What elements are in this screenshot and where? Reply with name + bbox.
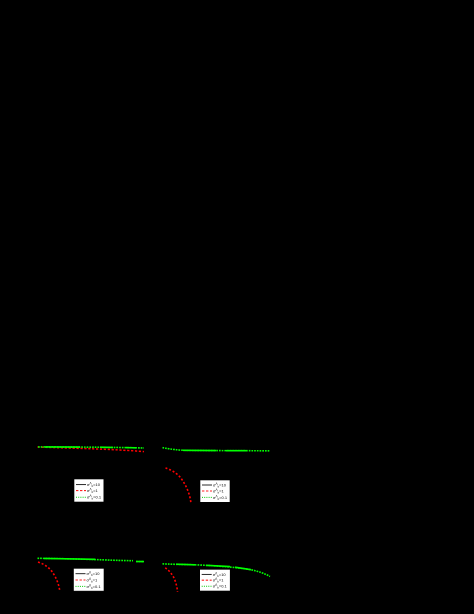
chart2 green solid segment a [183,449,216,451]
chart3 green solid segment b [136,561,144,563]
legend1 solid black sample [76,484,86,486]
legend2 green dotted sample [202,496,212,498]
chart 3 (bottom-left subplot) [38,558,145,591]
legend3 solid black sample [76,573,86,575]
chart1 red dashed curve [38,447,145,452]
chart3 legend box [74,568,105,591]
chart4 red dashed curve [165,568,177,592]
chart2 green solid segment b [226,450,246,452]
chart4 green solid segment c [235,567,251,570]
legend4 red dashed sample [202,579,212,581]
chart1 green solid segment b [100,446,113,448]
legend3 green dotted sample [76,585,86,587]
legend4 green dotted sample [202,585,212,587]
legend1 red dashed sample [76,490,86,492]
chart 1 (top-left subplot) [38,447,145,452]
chart2 legend box [200,480,230,502]
chart3 green dotted curve [38,558,145,561]
chart1 legend box [74,479,104,502]
legend3 red dashed sample [76,579,86,581]
chart2 red dashed curve [166,468,191,503]
legend2 solid black sample [202,484,212,486]
chart 2 (top-right subplot) [163,448,271,503]
chart1 green solid segment c [126,447,136,449]
chart4 green solid segment b [206,565,230,566]
chart 4 (bottom-right subplot) [163,564,271,592]
chart4 green dotted curve [163,564,271,577]
chart4 legend box [200,569,231,591]
chart1 green solid segment a [45,446,80,448]
chart4 green solid segment a [176,563,195,566]
chart3 red dashed curve [38,562,60,591]
legend4 solid black sample [202,573,212,575]
legend1 green dotted sample [76,496,86,498]
chart1 green dotted curve [38,447,144,448]
chart2 green dotted curve [163,448,271,451]
chart3 green solid segment a [44,557,95,560]
legend2 red dashed sample [202,490,212,492]
